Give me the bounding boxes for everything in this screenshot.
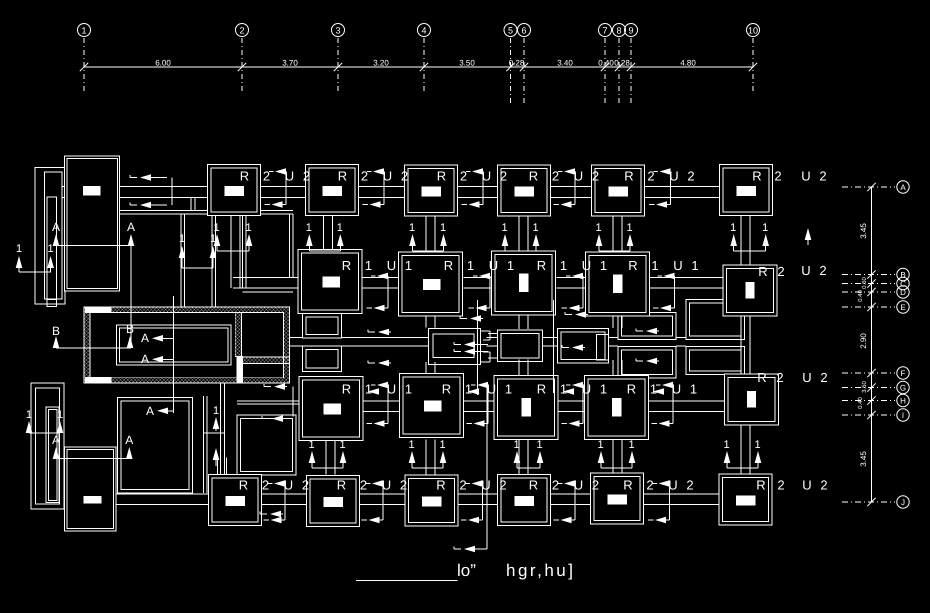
left wall assembly upper (35, 168, 65, 305)
grid leader A (842, 186, 895, 188)
column T2 (306, 165, 359, 216)
svg-text:R: R (628, 258, 637, 273)
svg-text:R: R (757, 370, 766, 385)
left wall notch box (47, 299, 57, 306)
svg-text:1: 1 (691, 258, 698, 273)
section hook arrow lower (362, 519, 368, 521)
inner room double rect (117, 325, 231, 365)
grid bubble H (897, 394, 909, 406)
svg-text:2: 2 (777, 478, 784, 493)
svg-text:4: 4 (421, 26, 426, 36)
column LT (65, 156, 120, 291)
marker tail line (517, 467, 540, 469)
svg-text:R: R (537, 258, 546, 273)
svg-text:1: 1 (730, 222, 736, 234)
section hook arrow upper (371, 275, 376, 277)
grid leader G (842, 387, 895, 389)
column T5 (592, 165, 645, 216)
svg-text:1: 1 (245, 222, 251, 234)
section hook arrow lower (554, 519, 560, 521)
svg-text:R: R (442, 382, 451, 397)
grid tick 10 (749, 63, 757, 71)
svg-text:3.20: 3.20 (373, 59, 389, 68)
svg-text:R: R (758, 264, 767, 279)
column N1 (299, 377, 363, 441)
svg-text:2: 2 (460, 169, 467, 184)
column B1 (209, 475, 262, 526)
grid bubble 1 (78, 24, 91, 37)
svg-text:R: R (756, 478, 765, 493)
column N2 (400, 374, 464, 438)
svg-text:1: 1 (762, 222, 768, 234)
svg-text:R: R (342, 258, 351, 273)
svg-text:1: 1 (465, 382, 472, 397)
grid tick 5 (506, 63, 514, 71)
grid centerline 9 (630, 38, 632, 105)
svg-text:U: U (802, 478, 811, 493)
marker tail line (412, 467, 443, 469)
column M4 (586, 252, 650, 316)
svg-text:A: A (141, 331, 149, 345)
svg-text:1: 1 (505, 382, 512, 397)
wall pair lower mid b (220, 383, 222, 475)
column M3 (492, 251, 556, 315)
svg-text:1: 1 (723, 439, 729, 451)
dashed arrows central band (460, 318, 467, 320)
svg-text:6.00: 6.00 (155, 59, 171, 68)
svg-text:1: 1 (513, 439, 519, 451)
svg-text:G: G (900, 384, 906, 393)
svg-text:A: A (146, 404, 154, 418)
svg-text:2.90: 2.90 (859, 333, 868, 349)
grid tick 1 (80, 63, 88, 71)
grid bubble 9 (625, 24, 638, 37)
section hook arrow lower (652, 423, 658, 425)
column B5 (591, 473, 644, 524)
room right lower 2 (686, 347, 745, 375)
svg-text:1: 1 (210, 233, 216, 245)
svg-text:3.50: 3.50 (861, 381, 868, 393)
svg-text:9: 9 (628, 26, 633, 36)
svg-text:1: 1 (48, 243, 54, 255)
svg-text:1: 1 (308, 439, 314, 451)
svg-text:R: R (529, 169, 538, 184)
svg-text:1: 1 (26, 409, 32, 421)
grid tick 4 (420, 63, 428, 71)
grid centerline 8 (618, 38, 620, 105)
row1 walls (119, 185, 209, 187)
svg-text:6: 6 (521, 26, 526, 36)
svg-text:1: 1 (81, 26, 86, 36)
grid tick H (867, 396, 875, 404)
svg-text:1: 1 (651, 258, 658, 273)
section hook arrow lower (264, 519, 270, 521)
row3 walls (363, 400, 401, 402)
column T1 (208, 165, 261, 216)
svg-text:A: A (900, 183, 906, 192)
svg-text:1: 1 (507, 258, 514, 273)
grid bubble I (897, 409, 909, 421)
marker tail line (312, 467, 343, 469)
column M5 (723, 265, 777, 316)
grid bubble J (897, 496, 909, 508)
marker tail line (505, 250, 536, 252)
grid tick 7 (601, 63, 609, 71)
svg-text:1: 1 (337, 222, 343, 234)
vertical walls row1-row2 (230, 216, 232, 289)
grid bubble E (897, 301, 909, 313)
svg-text:E: E (900, 303, 905, 312)
column T6 (720, 165, 773, 216)
extra row3 arrows (368, 388, 379, 395)
svg-text:1: 1 (339, 439, 345, 451)
svg-text:2: 2 (592, 478, 599, 493)
svg-text:2: 2 (303, 169, 310, 184)
section hook line (582, 276, 584, 308)
grid bubble 2 (236, 24, 249, 37)
row4 walls (116, 493, 210, 495)
wall connector lower mid (204, 432, 225, 434)
section hook arrow upper (268, 483, 273, 485)
room A right notch (481, 330, 491, 332)
section hook arrow lower (554, 204, 560, 206)
svg-text:2: 2 (820, 478, 827, 493)
room right upper 1 (618, 313, 676, 340)
svg-text:H: H (900, 397, 906, 406)
svg-text:R: R (529, 478, 538, 493)
svg-text:2: 2 (400, 478, 407, 493)
section hook arrow lower (469, 307, 475, 309)
section line vertical x487 (486, 383, 488, 549)
hatched wall ring outer (84, 307, 290, 383)
grid tick I (867, 411, 875, 419)
section hook arrow lower (265, 204, 271, 206)
grid bubble C (897, 277, 909, 289)
svg-text:R: R (240, 169, 249, 184)
grid centerline 7 (604, 38, 606, 105)
svg-text:0.28: 0.28 (614, 59, 630, 68)
section hook line (672, 385, 674, 424)
svg-text:B: B (52, 324, 60, 338)
hatched right room bottom wall (242, 357, 290, 364)
section hook arrow upper (653, 483, 658, 485)
grid bubble A (897, 181, 909, 193)
right dimension line (871, 187, 873, 502)
column N5 (725, 374, 779, 425)
column T3 (405, 165, 458, 216)
room lower mid (237, 415, 296, 475)
section hook line (284, 484, 286, 521)
svg-text:1: 1 (560, 258, 567, 273)
svg-text:J: J (901, 498, 905, 507)
section hook arrow upper (558, 483, 563, 485)
svg-text:A: A (52, 433, 60, 447)
svg-text:1: 1 (560, 382, 567, 397)
svg-text:2: 2 (820, 370, 827, 385)
grid tick 3 (334, 63, 342, 71)
svg-text:R: R (337, 478, 346, 493)
svg-text:A: A (52, 220, 60, 234)
svg-text:1: 1 (306, 222, 312, 234)
svg-text:2: 2 (360, 478, 367, 493)
svg-text:1: 1 (501, 222, 507, 234)
section line vertical x478 (477, 300, 479, 395)
grid tick F (867, 369, 875, 377)
section hook line (489, 276, 491, 308)
room right lower 1 (618, 347, 676, 379)
white wall gap bottom-left (85, 377, 112, 383)
wall pair below LT-T1 (116, 210, 293, 212)
grid tick C (867, 279, 875, 287)
svg-text:2: 2 (687, 169, 694, 184)
grid centerline 10 (752, 38, 754, 93)
svg-text:2: 2 (592, 169, 599, 184)
svg-text:2: 2 (777, 264, 784, 279)
svg-text:1: 1 (365, 258, 372, 273)
marker tail line (309, 250, 340, 252)
grid tick J (867, 498, 875, 506)
column N4 (585, 376, 649, 440)
room right upper 2 (686, 300, 745, 340)
dashed arrows left of T1 (130, 177, 137, 179)
section hook arrow upper (566, 275, 571, 277)
grid centerline 1 (83, 38, 85, 93)
svg-text:B: B (126, 322, 134, 336)
svg-text:1: 1 (408, 439, 414, 451)
svg-text:U: U (582, 258, 591, 273)
svg-text:1: 1 (600, 382, 607, 397)
svg-text:R: R (342, 382, 351, 397)
grid leader B (842, 274, 895, 276)
marker tail line (727, 467, 758, 469)
column M1 (298, 250, 362, 314)
svg-text:U: U (673, 258, 682, 273)
section hook line (285, 172, 287, 205)
top dimension line (84, 66, 753, 68)
svg-text:2: 2 (552, 169, 559, 184)
white wall gap top-left (85, 307, 112, 313)
section hook arrow upper (654, 171, 659, 173)
grid bubble 4 (418, 24, 431, 37)
svg-text:2: 2 (776, 370, 783, 385)
room T2-M1 verticals (242, 214, 244, 288)
grid leader I (842, 414, 895, 416)
grid bubble 3 (332, 24, 345, 37)
left connector walls (62, 185, 65, 187)
svg-text:R: R (752, 169, 761, 184)
section hook arrow upper (656, 384, 661, 386)
svg-text:2: 2 (361, 169, 368, 184)
svg-text:2: 2 (263, 169, 270, 184)
svg-text:3.50: 3.50 (459, 59, 475, 68)
vertical walls row3-row4 (325, 440, 327, 475)
wall pair lower mid a (203, 396, 205, 493)
white wall gap door (236, 356, 243, 383)
svg-text:1: 1 (16, 243, 22, 255)
room T2-M1 bottom extra (243, 291, 294, 293)
column B2 (307, 476, 360, 527)
section hook arrow upper (658, 275, 663, 277)
grid tick G (867, 383, 875, 391)
svg-text:R: R (623, 478, 632, 493)
grid centerline 6 (523, 38, 525, 105)
svg-text:2: 2 (499, 478, 506, 493)
column N3 (494, 376, 558, 440)
svg-text:R: R (444, 258, 453, 273)
svg-text:3: 3 (335, 26, 340, 36)
section hook line (387, 385, 389, 424)
svg-text:1: 1 (213, 405, 219, 417)
section hook line (674, 276, 676, 308)
section hook line (670, 172, 672, 205)
section hook line (387, 276, 389, 308)
arrow bottom x487 (454, 548, 461, 550)
vertical walls left rooms upper (180, 214, 182, 307)
section hook line (482, 484, 484, 521)
svg-text:7: 7 (602, 26, 607, 36)
marker tail line (413, 250, 444, 252)
vertical walls row2-row3 (425, 317, 427, 328)
svg-text:2: 2 (401, 169, 408, 184)
grid bubble 5 (504, 24, 517, 37)
svg-text:0.28: 0.28 (509, 59, 525, 68)
column T4 (498, 165, 551, 216)
grid leader E (842, 306, 895, 308)
section hook arrow upper (471, 384, 476, 386)
section hook arrow lower (462, 204, 468, 206)
core of LT (83, 186, 101, 196)
wall left of N1 (237, 400, 301, 402)
svg-text:R: R (436, 478, 445, 493)
section hook arrow upper (466, 171, 471, 173)
svg-text:1: 1 (439, 439, 445, 451)
svg-text:0.40: 0.40 (857, 397, 864, 409)
column B3 (405, 475, 458, 526)
section line vertical x174 (173, 296, 175, 413)
svg-text:A: A (141, 352, 149, 366)
grid tick D (867, 288, 875, 296)
svg-text:0.40: 0.40 (598, 59, 614, 68)
section hook line (382, 484, 384, 521)
section hook line (482, 172, 484, 205)
section hook arrow lower (562, 307, 568, 309)
svg-text:1: 1 (532, 222, 538, 234)
grid tick B (867, 270, 875, 278)
svg-text:3.70: 3.70 (282, 59, 298, 68)
svg-text:1: 1 (626, 222, 632, 234)
grid leader C (842, 283, 895, 285)
svg-text:1: 1 (650, 382, 657, 397)
section hook arrow upper (473, 275, 478, 277)
grid bubble F (897, 367, 909, 379)
section hook line (669, 484, 671, 521)
svg-text:U: U (801, 169, 810, 184)
marker tail line (217, 250, 249, 252)
grid tick 2 (238, 63, 246, 71)
svg-text:2: 2 (819, 263, 826, 278)
svg-text:2: 2 (646, 478, 653, 493)
marker tail line (599, 250, 630, 252)
svg-text:2: 2 (552, 478, 559, 493)
grid leader D (842, 291, 895, 293)
svg-text:1: 1 (600, 258, 607, 273)
column B6 (719, 474, 772, 525)
grid bubble B (897, 268, 909, 280)
marker tail line (601, 467, 632, 469)
svg-text:10: 10 (748, 26, 758, 36)
svg-text:1: 1 (405, 258, 412, 273)
title underline (356, 579, 457, 581)
grid leader J (842, 501, 895, 503)
room stair A (429, 329, 481, 365)
room stair C inner cell (597, 335, 609, 361)
hatched wall ring band (84, 307, 290, 383)
room small 1 (303, 313, 342, 338)
svg-text:1: 1 (409, 222, 415, 234)
section hook arrow upper (366, 483, 371, 485)
svg-text:2: 2 (239, 26, 244, 36)
section hook arrow upper (371, 384, 376, 386)
svg-text:R: R (437, 169, 446, 184)
svg-text:1: 1 (628, 439, 634, 451)
grid leader H (842, 400, 895, 402)
svg-text:A: A (125, 433, 133, 447)
svg-text:R: R (338, 169, 347, 184)
hook arrows above room lower mid (264, 386, 271, 388)
column M2 (399, 252, 463, 316)
svg-text:1: 1 (365, 382, 372, 397)
section hook line (582, 385, 584, 424)
hatched partition vertical (235, 312, 241, 356)
grid centerline 3 (337, 38, 339, 93)
svg-text:1: 1 (536, 439, 542, 451)
grid tick 8 (615, 63, 623, 71)
svg-text:2: 2 (819, 169, 826, 184)
section hook arrow lower (653, 307, 659, 309)
svg-text:U: U (802, 370, 811, 385)
section hook arrow upper (566, 384, 571, 386)
svg-text:lo”: lo” (457, 561, 476, 580)
svg-text:2: 2 (459, 478, 466, 493)
room stair B notch (488, 333, 497, 335)
svg-text:5: 5 (508, 26, 513, 36)
section hook arrow lower (648, 519, 654, 521)
svg-text:3.45: 3.45 (859, 223, 868, 239)
vertical wall above B1 (217, 458, 219, 475)
section line A-B vertical (130, 246, 132, 349)
room small 2 (303, 346, 342, 372)
svg-text:R: R (624, 169, 633, 184)
svg-text:1: 1 (597, 439, 603, 451)
svg-text:2: 2 (302, 478, 309, 493)
grid bubble G (897, 381, 909, 393)
column LB (65, 447, 117, 531)
svg-text:1: 1 (690, 382, 697, 397)
section hook arrow lower (363, 204, 369, 206)
svg-text:2: 2 (686, 478, 693, 493)
svg-text:R: R (239, 478, 248, 493)
grid centerline 5 (510, 38, 512, 105)
section hook arrow upper (558, 171, 563, 173)
grid centerline 4 (423, 38, 425, 93)
svg-text:4.80: 4.80 (680, 59, 696, 68)
stacked arrows room A (454, 344, 461, 346)
core of LB (84, 496, 102, 504)
svg-text:2: 2 (647, 169, 654, 184)
svg-text:1: 1 (405, 382, 412, 397)
svg-text:B: B (900, 271, 905, 280)
marker 1 right of T6 (805, 228, 812, 240)
